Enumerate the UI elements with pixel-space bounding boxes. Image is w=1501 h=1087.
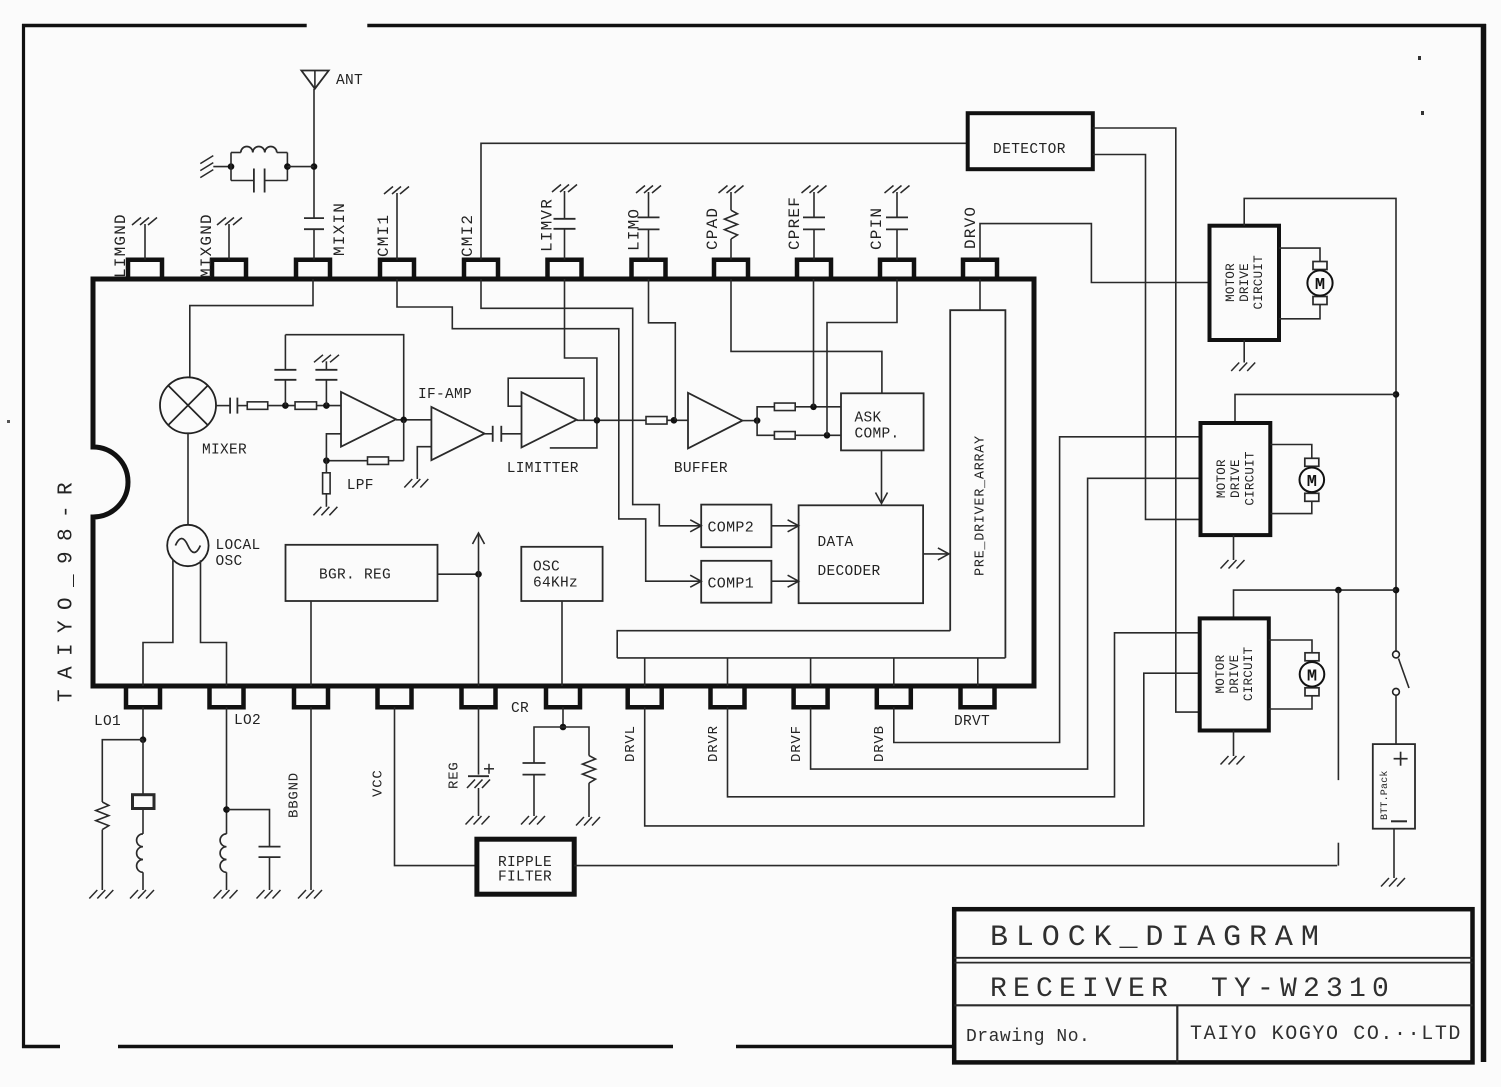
- svg-text:64KHz: 64KHz: [533, 576, 578, 592]
- capacitor IF coupling: [492, 426, 494, 442]
- mixer circle: [160, 377, 216, 433]
- svg-text:BTT.Pack: BTT.Pack: [1379, 770, 1391, 820]
- motor drive circuit 3 box: [1200, 618, 1269, 730]
- wire battery to ground: [1393, 829, 1395, 878]
- svg-text:CPIN: CPIN: [868, 207, 886, 250]
- wire ask lower branch: [757, 421, 774, 436]
- svg-text:CR: CR: [511, 701, 529, 717]
- wire supply to MDC2: [1235, 394, 1396, 423]
- page border top segment B: [367, 24, 1486, 27]
- capacitor REG electrolytic: [468, 775, 489, 777]
- data decoder box: [799, 505, 924, 603]
- wire ground to tank: [213, 166, 231, 168]
- svg-text:DETECTOR: DETECTOR: [993, 142, 1066, 158]
- arrow decoder to pre-driver: [938, 548, 949, 560]
- resistor buffer series: [646, 417, 667, 425]
- wire osc to LO1: [143, 560, 173, 686]
- wire ask upper to box: [795, 406, 841, 408]
- speck top right 2: [1421, 111, 1424, 115]
- wire pre-driver bus upper: [617, 631, 950, 658]
- svg-text:CIRCUIT: CIRCUIT: [1243, 451, 1257, 506]
- wire DRVO to motor drive 1: [980, 224, 1210, 283]
- pin CPAD box: [714, 260, 748, 279]
- osc 64khz box: [521, 547, 602, 601]
- svg-text:LO2: LO2: [234, 713, 261, 729]
- pin DRVL box: [628, 686, 662, 707]
- node LO1: [140, 736, 147, 743]
- node LPF: [323, 457, 330, 464]
- ground LPF: [313, 507, 321, 516]
- wire COMP2 to decoder: [771, 525, 797, 527]
- wire MDC3 to motor bottom: [1269, 696, 1312, 709]
- wire MDC2 to motor bottom: [1270, 501, 1312, 513]
- wire bus drop DRVL: [644, 658, 646, 686]
- svg-text:MOTOR: MOTOR: [1224, 263, 1238, 302]
- svg-text:DRIVE: DRIVE: [1229, 459, 1243, 498]
- ground IF-AMP: [404, 479, 412, 488]
- ground CPREF: [802, 186, 811, 194]
- wire BBGND to ground: [310, 707, 312, 890]
- node supply MDC2: [1393, 391, 1400, 398]
- svg-text:ASK: ASK: [855, 411, 882, 427]
- wire feedback top: [285, 335, 403, 420]
- pin CR box: [546, 686, 580, 707]
- svg-text:BLOCK_DIAGRAM: BLOCK_DIAGRAM: [990, 921, 1327, 955]
- svg-text:FILTER: FILTER: [498, 870, 552, 886]
- capacitor CPREF: [803, 216, 825, 218]
- capacitor MIXIN coupling: [304, 217, 324, 219]
- ground REG: [466, 816, 474, 825]
- resistor LO1: [96, 802, 109, 830]
- wire limitter bottom feedback: [550, 420, 597, 448]
- node tank right: [284, 163, 291, 170]
- wire crystal to coil: [142, 809, 144, 834]
- bgr reg box: [286, 545, 438, 601]
- svg-text:VCC: VCC: [370, 769, 386, 797]
- svg-text:CMI1: CMI1: [375, 214, 393, 257]
- local osc circle: [167, 525, 208, 566]
- wire decoder to pre-driver: [923, 553, 947, 555]
- antenna ANT symbol: [301, 71, 328, 89]
- resistor LPF shunt: [325, 461, 327, 473]
- svg-text:Drawing No.: Drawing No.: [966, 1027, 1090, 1047]
- capacitor tank cap: [231, 180, 254, 182]
- svg-text:TY-W2310: TY-W2310: [1211, 974, 1395, 1005]
- svg-text:CIRCUIT: CIRCUIT: [1242, 647, 1256, 702]
- node LO2: [223, 806, 230, 813]
- ground LO1: [130, 890, 138, 899]
- wire CMI2 to COMP2: [481, 279, 700, 526]
- wire cap to R1: [237, 405, 247, 407]
- wire IF-AMP out: [485, 433, 493, 435]
- capacitor CR: [523, 762, 546, 764]
- svg-text:LOCAL: LOCAL: [216, 538, 261, 554]
- ground CMI1: [384, 187, 393, 195]
- wire LO2 cap ground: [269, 857, 271, 890]
- arrow into COMP2: [690, 520, 701, 532]
- svg-text:LIMVR: LIMVR: [538, 198, 556, 252]
- wire MDC3 ground: [1233, 731, 1235, 757]
- svg-text:MIXIN: MIXIN: [331, 202, 349, 256]
- capacitor feedback C1: [284, 380, 286, 406]
- op-amp BUFFER: [688, 393, 742, 449]
- ground LIMVR: [552, 185, 561, 193]
- pin LO2 box: [210, 686, 244, 707]
- wire bus drop DRVT: [977, 658, 979, 686]
- wire CPAD to ground: [730, 192, 732, 210]
- pin CPIN box: [880, 260, 914, 279]
- svg-text:CPREF: CPREF: [786, 196, 804, 250]
- wire REG down: [478, 707, 480, 774]
- wire DRVR to motor drive 3: [728, 633, 1200, 797]
- wire CR resistor ground: [588, 783, 590, 817]
- pin LO1 box: [126, 686, 160, 707]
- svg-text:MOTOR: MOTOR: [1214, 654, 1228, 693]
- svg-text:REG: REG: [447, 761, 463, 789]
- pin DRVF box: [794, 686, 828, 707]
- wire resistor to buffer: [667, 419, 688, 421]
- page border left: [22, 24, 25, 1048]
- ground MDC2: [1221, 560, 1229, 569]
- node B: [323, 402, 330, 409]
- op-amp IF-AMP: [431, 407, 484, 460]
- svg-text:LIMGND: LIMGND: [112, 213, 130, 278]
- motor drive circuit 2 box: [1201, 423, 1271, 535]
- wire R1 to node A: [268, 405, 295, 407]
- svg-text:DRIVE: DRIVE: [1228, 655, 1242, 694]
- resistor ask upper: [774, 403, 795, 411]
- svg-text:OSC: OSC: [533, 560, 560, 576]
- battery BTT.Pack box: [1373, 744, 1415, 829]
- pin CMI2 box: [464, 260, 498, 279]
- crystal LO1: [133, 795, 155, 809]
- wire MDC1 ground: [1243, 340, 1245, 363]
- wire DRVO internal to pre-driver: [979, 279, 981, 310]
- motor M1: [1313, 262, 1327, 270]
- svg-text:MIXER: MIXER: [202, 443, 247, 459]
- inductor LO1: [137, 834, 143, 872]
- arrow COMP1 decoder: [788, 575, 799, 587]
- resistor LPF R: [368, 457, 389, 465]
- wire mixer output: [216, 405, 230, 407]
- wire MDC3 to motor top: [1269, 640, 1312, 653]
- wire detector out bottom: [1093, 155, 1201, 520]
- inductor tank coil: [231, 152, 241, 154]
- svg-text:BGR. REG: BGR. REG: [319, 568, 391, 584]
- resistor ask lower: [774, 432, 795, 440]
- switch lever: [1399, 659, 1410, 689]
- wire CPAD resistor: [730, 239, 732, 260]
- svg-text:DRVR: DRVR: [706, 725, 722, 762]
- svg-text:COMP2: COMP2: [708, 520, 755, 537]
- arrow ask to data decoder: [876, 493, 888, 504]
- svg-text:DRVT: DRVT: [954, 714, 990, 730]
- capacitor LIMVR: [554, 218, 576, 220]
- ask comp box: [841, 393, 924, 450]
- pin CPREF box: [797, 260, 831, 279]
- pin DRVO box: [963, 260, 997, 279]
- comparator COMP2 box: [701, 505, 771, 548]
- svg-text:BBGND: BBGND: [287, 772, 303, 818]
- node ask lower: [824, 432, 831, 439]
- capacitor LO2: [259, 846, 281, 848]
- wire osc64 to CR: [561, 601, 563, 686]
- wire bus drop DRVR: [727, 658, 729, 686]
- wire switch to battery: [1395, 695, 1397, 744]
- wire LPF R to node: [326, 460, 367, 462]
- node A1 out: [400, 417, 407, 424]
- page border bottom segment C: [736, 1045, 956, 1049]
- wire CR right branch: [563, 727, 589, 756]
- speck top right 1: [1418, 56, 1421, 60]
- ground CR resistor: [576, 817, 584, 826]
- wire MDC1 to motor bottom: [1279, 305, 1320, 319]
- wire cap to MIXIN pin: [313, 229, 315, 260]
- svg-text:COMP.: COMP.: [855, 427, 900, 443]
- svg-text:DRVF: DRVF: [789, 725, 805, 762]
- wire bgr to BBGND: [310, 601, 312, 686]
- ground BBGND: [298, 890, 306, 899]
- wire LO2 down: [226, 707, 228, 834]
- wire CMI1 to ground: [396, 193, 398, 260]
- svg-text:M: M: [1307, 667, 1317, 686]
- ground LO2: [214, 890, 222, 899]
- svg-text:LO1: LO1: [94, 714, 121, 730]
- wire LIMO cap: [648, 229, 650, 259]
- svg-text:TAIYO KOGYO CO.··LTD: TAIYO KOGYO CO.··LTD: [1190, 1023, 1462, 1046]
- wire LPF to A1 inverting input: [326, 434, 341, 461]
- switch contact bottom: [1393, 688, 1400, 695]
- svg-text:TAIYO_98-R: TAIYO_98-R: [56, 472, 79, 702]
- pin BBGND box: [294, 686, 328, 707]
- ground LC tank: [200, 156, 213, 164]
- pin DRVR box: [711, 686, 745, 707]
- ground MDC1: [1231, 363, 1239, 372]
- wire MIXIN internal to mixer: [190, 279, 313, 377]
- wire LPF horizontal: [389, 460, 404, 462]
- arrow into COMP1: [690, 575, 701, 587]
- node ripple rail: [1335, 587, 1342, 594]
- page border right: [1481, 24, 1487, 1062]
- wire LO1 left branch: [102, 740, 143, 802]
- ground MDC3: [1221, 756, 1229, 765]
- svg-text:COMP1: COMP1: [708, 576, 755, 593]
- wire LIMO to ground: [648, 192, 650, 217]
- pin CMI1 box: [380, 260, 414, 279]
- pin REG box: [462, 686, 496, 707]
- wire LIMVR tap: [565, 279, 597, 420]
- ground MIXGND: [217, 218, 226, 226]
- svg-text:CPAD: CPAD: [704, 207, 722, 250]
- ground CR cap: [521, 816, 529, 825]
- wire cap to limitter: [501, 433, 521, 435]
- arrow COMP2 decoder: [788, 520, 799, 532]
- svg-text:MIXGND: MIXGND: [198, 213, 216, 278]
- node CR: [560, 724, 567, 731]
- ground CPIN: [885, 186, 894, 194]
- svg-text:DRVL: DRVL: [623, 725, 639, 762]
- svg-text:MOTOR: MOTOR: [1215, 459, 1229, 498]
- wire CPREF tap: [813, 279, 815, 407]
- wire bgr to reg node: [438, 573, 479, 575]
- svg-text:LPF: LPF: [347, 478, 374, 494]
- ground C2: [314, 355, 323, 363]
- wire tank right branch: [286, 153, 288, 181]
- ground battery: [1381, 878, 1389, 887]
- wire LO1 down: [142, 707, 144, 739]
- node ask upper: [810, 404, 817, 411]
- wire COMP1 to decoder: [771, 580, 797, 582]
- detector box: [968, 113, 1093, 169]
- wire CMI2 up to detector: [481, 143, 968, 259]
- wire bus drop DRVB: [893, 658, 895, 686]
- svg-text:M: M: [1315, 276, 1325, 295]
- title block separator line 2: [954, 1004, 1472, 1006]
- wire limitter output: [577, 419, 646, 421]
- wire LPF feedback vertical: [403, 420, 405, 461]
- motor drive circuit 1 box: [1210, 226, 1280, 340]
- op-amp LIMITTER: [522, 392, 577, 447]
- wire shunt to ground: [325, 494, 327, 507]
- pin DRVT box: [961, 686, 995, 707]
- ground CPAD: [719, 186, 728, 194]
- switch contact top: [1393, 651, 1400, 658]
- svg-text:CMI2: CMI2: [459, 214, 477, 257]
- resistor R chain 1: [247, 402, 268, 410]
- node antenna junction: [311, 163, 318, 170]
- svg-text:DRVO: DRVO: [962, 206, 980, 249]
- wire MIXGND to ground: [228, 224, 230, 260]
- wire LIMGND to ground: [144, 224, 146, 260]
- svg-text:PRE_DRIVER_ARRAY: PRE_DRIVER_ARRAY: [973, 435, 988, 576]
- svg-text:DATA: DATA: [818, 535, 854, 551]
- capacitor CPIN: [886, 216, 908, 218]
- wire tank left branch: [230, 153, 232, 181]
- svg-text:BUFFER: BUFFER: [674, 461, 728, 477]
- wire CR cap ground: [533, 775, 535, 816]
- title block frame: [954, 909, 1472, 1062]
- wire ripple riser lower: [1337, 843, 1339, 866]
- wire CPREF cap: [813, 229, 815, 259]
- title block vertical divider: [1176, 1005, 1178, 1062]
- pin LIMO box: [632, 260, 666, 279]
- speck mid left: [7, 420, 10, 423]
- wire pre-driver bus lower: [617, 657, 1005, 659]
- motor M2: [1305, 458, 1319, 466]
- wire ask upper branch: [757, 407, 774, 421]
- wire detector out top: [1093, 128, 1200, 712]
- svg-text:LIMITTER: LIMITTER: [507, 461, 579, 477]
- svg-text:DRIVE: DRIVE: [1238, 263, 1252, 302]
- wire mixer to local osc: [187, 433, 189, 525]
- pin LIMGND box: [128, 260, 162, 279]
- ground LO2 cap: [257, 890, 265, 899]
- comparator COMP1 box: [701, 561, 771, 603]
- wire LIMO tap: [649, 279, 676, 420]
- wire IF-AMP inverting to ground: [417, 447, 431, 479]
- wire MDC1 supply: [1244, 198, 1396, 651]
- node reg: [475, 571, 482, 578]
- inductor LO2: [220, 834, 226, 872]
- svg-text:OSC: OSC: [216, 554, 243, 570]
- pin MIXIN box: [296, 260, 330, 279]
- svg-text:DECODER: DECODER: [818, 564, 881, 580]
- wire CR down: [562, 707, 564, 727]
- ground LIMO: [636, 186, 645, 194]
- svg-text:CIRCUIT: CIRCUIT: [1252, 255, 1266, 310]
- wire limitter feedback box: [508, 378, 584, 420]
- wire bus drop DRVF: [810, 658, 812, 686]
- wire MDC2 ground: [1233, 535, 1235, 560]
- wire ripple riser upper: [1337, 590, 1339, 780]
- wire osc to LO2: [201, 560, 227, 686]
- node supply MDC3: [1393, 587, 1400, 594]
- resistor CR: [583, 756, 596, 784]
- wire buffer output: [742, 420, 757, 422]
- wire CR left branch: [534, 727, 563, 763]
- svg-text:DRVB: DRVB: [872, 725, 888, 762]
- pre-driver array box: [950, 310, 1005, 658]
- wire R2 to node B: [317, 405, 341, 407]
- wire LO2 coil ground: [226, 872, 228, 890]
- pin DRVB box: [877, 686, 911, 707]
- wire tank to antenna line: [287, 166, 314, 168]
- node tank left: [228, 163, 235, 170]
- label REG plus: [484, 768, 494, 770]
- page border bottom segment A: [22, 1045, 60, 1049]
- IC TAIYO_98-R body outline: [93, 279, 1034, 686]
- svg-text:ANT: ANT: [336, 73, 363, 89]
- wire REG cap to ground: [478, 788, 480, 816]
- ground LIMGND: [132, 218, 141, 226]
- wire antenna feed: [313, 89, 315, 218]
- svg-text:M: M: [1307, 473, 1317, 492]
- wire CPIN cap: [896, 229, 898, 259]
- wire A1 output: [396, 419, 431, 421]
- wire LO1 resistor to ground: [101, 830, 103, 890]
- pin VCC box: [378, 686, 412, 707]
- battery plus: [1394, 758, 1408, 760]
- svg-text:RECEIVER: RECEIVER: [990, 974, 1174, 1005]
- op-amp A1: [341, 392, 396, 447]
- wire DRVL to motor drive 3: [645, 673, 1200, 826]
- node buffer in: [671, 417, 678, 424]
- node limitter out: [594, 417, 601, 424]
- wire MDC2 to motor top: [1270, 445, 1312, 459]
- wire CPREF to ground: [813, 192, 815, 217]
- wire MDC1 to motor top: [1279, 248, 1320, 261]
- wire ask lower to box: [795, 434, 841, 436]
- wire LO1 main: [142, 740, 144, 795]
- arrow reg up: [473, 533, 485, 544]
- wire LIMVR cap: [564, 229, 566, 260]
- wire CPIN tap: [827, 279, 897, 435]
- capacitor C2 to ground: [325, 380, 327, 406]
- page border bottom segment B: [118, 1045, 673, 1049]
- wire supply to MDC3: [1234, 590, 1397, 618]
- wire ask to data decoder: [881, 450, 883, 502]
- wire CPIN to ground: [896, 192, 898, 217]
- wire LIMVR to ground: [564, 191, 566, 219]
- wire reg vertical: [478, 533, 480, 686]
- ripple filter box: [477, 839, 574, 894]
- ground LO1 left: [89, 890, 97, 899]
- pin MIXGND box: [212, 260, 246, 279]
- capacitor LIMO: [638, 216, 660, 218]
- wire VCC to ripple filter: [395, 707, 477, 865]
- capacitor mixer coupling: [229, 398, 231, 414]
- wire CPAD tap: [731, 279, 882, 393]
